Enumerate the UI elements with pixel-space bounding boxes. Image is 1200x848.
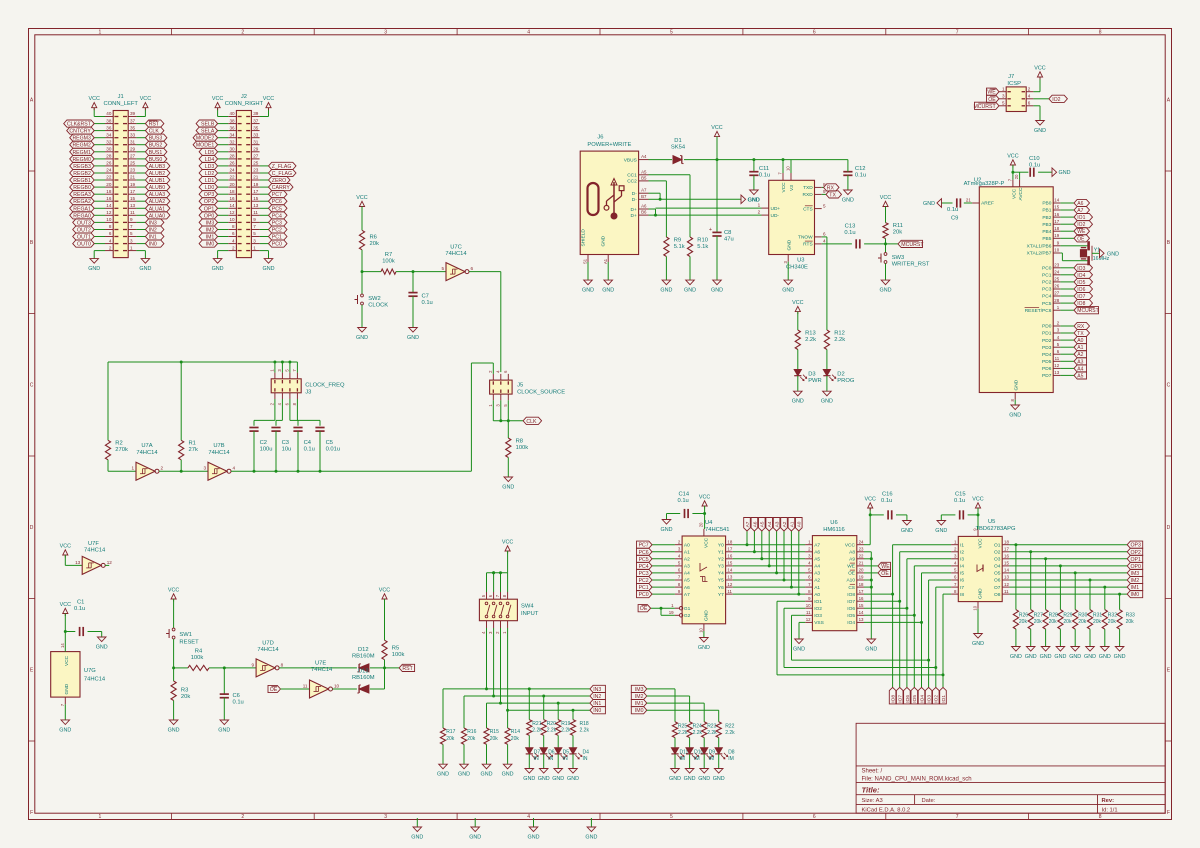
svg-text:R32: R32	[1108, 612, 1117, 618]
svg-text:VCC: VCC	[880, 195, 891, 201]
svg-text:0.1u: 0.1u	[844, 230, 855, 236]
junction	[870, 579, 873, 582]
svg-text:V3: V3	[789, 185, 795, 191]
wire	[1060, 353, 1074, 355]
power symbol GND (R28)	[1040, 647, 1052, 661]
svg-text:GND: GND	[787, 239, 793, 250]
wire	[977, 609, 979, 634]
junction	[557, 702, 560, 705]
svg-text:VCC: VCC	[502, 540, 513, 546]
svg-text:C12: C12	[855, 166, 866, 172]
capacitor C13	[844, 223, 859, 248]
switch SW1 RESET	[166, 628, 199, 646]
svg-text:270k: 270k	[115, 447, 128, 453]
wire	[493, 400, 523, 421]
wire	[703, 754, 705, 768]
svg-text:I4: I4	[960, 564, 964, 570]
svg-text:IO6: IO6	[847, 606, 855, 612]
svg-text:IN0: IN0	[593, 708, 601, 714]
ic U6 pins	[805, 539, 864, 626]
power symbol GND (D6)	[538, 769, 550, 783]
svg-text:Y5: Y5	[718, 578, 724, 584]
wire	[486, 703, 488, 728]
capacitor C2	[249, 428, 272, 453]
junction	[654, 214, 657, 217]
wire	[136, 130, 145, 132]
svg-text:8: 8	[109, 224, 112, 229]
svg-text:R18: R18	[580, 721, 589, 727]
svg-text:47u: 47u	[724, 237, 734, 243]
wire bus row 0	[733, 544, 806, 546]
wire	[776, 531, 778, 573]
junction	[942, 673, 945, 676]
global label C_FLAG	[269, 169, 297, 177]
svg-text:74HC14: 74HC14	[311, 667, 333, 673]
svg-text:J6: J6	[597, 135, 603, 141]
junction	[528, 687, 531, 690]
wire	[753, 531, 755, 552]
wire	[412, 296, 414, 327]
global label MODE2	[193, 134, 218, 142]
svg-text:IO8: IO8	[891, 695, 897, 703]
svg-text:GND: GND	[1114, 654, 1126, 660]
svg-text:14: 14	[859, 610, 864, 615]
svg-text:40: 40	[106, 111, 112, 116]
svg-text:A2: A2	[684, 557, 690, 563]
power symbol GND (D3)	[792, 391, 804, 405]
power symbol GND J1 left	[88, 259, 100, 273]
wire	[94, 243, 105, 245]
wire	[254, 399, 275, 426]
junction	[172, 666, 175, 669]
switch SW3 WRITER_RST	[878, 253, 930, 268]
wire	[649, 181, 667, 237]
wire	[361, 250, 363, 272]
svg-text:RB160M: RB160M	[352, 653, 375, 659]
power symbol GND (C16)	[901, 521, 913, 535]
wire	[703, 631, 705, 638]
power symbol GND (R10)	[684, 280, 696, 294]
svg-text:U3: U3	[797, 258, 804, 264]
wire	[319, 431, 321, 471]
vertical global label IO8	[889, 687, 896, 704]
wire	[281, 362, 283, 373]
global label OP1 (U5)	[1127, 555, 1143, 563]
power symbol GND (R9)	[660, 280, 672, 294]
wire U5 output 3	[1009, 558, 1127, 560]
svg-text:MCURST: MCURST	[901, 242, 924, 248]
svg-text:3: 3	[253, 238, 256, 243]
ic U7G pins	[60, 643, 65, 707]
global label SELA	[196, 127, 218, 135]
wire IO3 route	[792, 615, 929, 660]
resistor R19	[556, 720, 572, 736]
global label OE (reset)	[268, 685, 281, 693]
wire U5 output 7	[1009, 586, 1127, 588]
svg-text:AREF: AREF	[981, 201, 994, 207]
svg-text:GND: GND	[481, 772, 493, 778]
wire U5 input 8	[943, 593, 951, 595]
switch SW4 INPUT	[479, 592, 538, 634]
svg-text:20k: 20k	[370, 241, 379, 247]
wire	[928, 660, 930, 687]
svg-text:PC0: PC0	[272, 242, 282, 248]
power symbol VCC (U2)	[1007, 154, 1018, 168]
capacitor C15	[954, 491, 966, 519]
global label CLK	[523, 417, 542, 425]
svg-text:R26: R26	[1019, 612, 1028, 618]
svg-text:IM: IM	[728, 756, 734, 762]
wire	[607, 262, 609, 280]
wire	[921, 622, 923, 687]
global label RX (U3)	[824, 184, 840, 192]
junction	[920, 621, 923, 624]
junction	[870, 557, 873, 560]
wire	[65, 631, 75, 633]
global label REGB2	[70, 169, 95, 177]
junction	[1089, 579, 1092, 582]
diode D12 RB160M	[352, 647, 375, 672]
power symbol GND (SW2)	[356, 328, 368, 342]
svg-text:0.1u: 0.1u	[74, 606, 85, 612]
svg-text:IO7: IO7	[898, 695, 904, 703]
global label REGM2	[70, 141, 95, 149]
power symbol GND (J6)	[602, 280, 614, 294]
svg-text:19: 19	[669, 610, 674, 615]
svg-text:27: 27	[1054, 291, 1059, 296]
svg-text:27: 27	[130, 154, 136, 159]
svg-text:D-: D-	[632, 191, 637, 197]
svg-text:A1: A1	[789, 521, 795, 527]
wire	[94, 186, 105, 188]
wire	[94, 193, 105, 195]
svg-text:PB4: PB4	[1042, 229, 1051, 235]
wire	[94, 144, 105, 146]
global label PC4 (U4)	[637, 562, 653, 570]
global label RST	[145, 120, 164, 128]
wire	[799, 622, 805, 639]
wire	[486, 744, 488, 764]
wire IO7	[864, 600, 900, 602]
vertical global label A6	[751, 518, 758, 532]
connector J5 CLOCK_SOURCE	[488, 370, 565, 407]
svg-text:100k: 100k	[392, 652, 405, 658]
inverter U7A 74HC14	[131, 443, 163, 480]
svg-text:VSS: VSS	[814, 620, 824, 626]
wire	[384, 660, 386, 668]
resistor R4	[188, 648, 209, 670]
power symbol GND (R3)	[168, 720, 180, 734]
wire	[108, 460, 136, 471]
wire	[1012, 165, 1014, 172]
wire	[942, 202, 953, 204]
svg-text:16: 16	[727, 554, 732, 559]
wire	[260, 193, 269, 195]
svg-text:R19: R19	[561, 721, 570, 727]
wire U5 input 1	[893, 544, 952, 546]
wire	[543, 754, 545, 768]
wire	[276, 399, 282, 426]
svg-text:6: 6	[813, 29, 816, 35]
power symbol GND (C11)	[748, 190, 760, 204]
junction	[507, 419, 510, 422]
global label PC0	[269, 240, 288, 248]
svg-text:VCC: VCC	[379, 588, 390, 594]
svg-text:10: 10	[1054, 248, 1059, 253]
svg-text:2: 2	[161, 466, 164, 471]
svg-text:0.1u: 0.1u	[947, 207, 958, 213]
global label A6 (U2)	[1074, 199, 1090, 207]
svg-text:10: 10	[786, 166, 791, 171]
global label OUT3	[73, 219, 95, 227]
ic U7G 74HC14 power unit	[51, 652, 106, 698]
resistor R23	[702, 722, 718, 738]
wire	[507, 628, 509, 710]
svg-text:35: 35	[253, 125, 259, 130]
svg-text:TX: TX	[829, 192, 836, 198]
wire	[180, 460, 182, 471]
svg-text:GND: GND	[263, 266, 275, 272]
svg-text:CONN_RIGHT: CONN_RIGHT	[225, 101, 264, 107]
global label IM2 (U5)	[1127, 576, 1143, 584]
svg-text:POWER+WRITE: POWER+WRITE	[587, 142, 631, 148]
wire	[362, 271, 381, 273]
svg-text:C10: C10	[1029, 156, 1040, 162]
power symbol GND (J6 shield)	[582, 280, 594, 294]
capacitor C8 47u	[709, 227, 734, 243]
junction	[752, 158, 755, 161]
ic U4 74HC541 body	[682, 520, 729, 624]
svg-text:20k: 20k	[1126, 619, 1135, 625]
svg-text:GND: GND	[139, 266, 151, 272]
svg-text:GND: GND	[88, 266, 100, 272]
global label IM1	[199, 233, 218, 241]
svg-text:HM6116: HM6116	[823, 527, 844, 533]
svg-text:J3: J3	[305, 389, 311, 395]
capacitor C16	[881, 491, 893, 519]
wire	[94, 158, 105, 160]
wire	[260, 221, 269, 223]
wire	[1019, 172, 1021, 179]
global label TX (U2)	[1074, 329, 1090, 337]
power symbol GND flag (USB)	[741, 195, 760, 204]
vertical global label IO3	[925, 687, 932, 704]
power symbol GND (bottom)	[528, 827, 540, 841]
power symbol VCC (J7)	[1034, 66, 1045, 80]
wire	[885, 263, 887, 280]
wire bus row 5	[733, 579, 806, 581]
wire	[716, 160, 718, 233]
inverter U7C 74HC14	[441, 245, 473, 281]
svg-text:1: 1	[758, 203, 761, 208]
resistor R21	[527, 720, 543, 736]
junction	[485, 687, 488, 690]
resistor R8	[506, 438, 529, 458]
wire	[689, 754, 691, 768]
global label OE (U6)	[878, 569, 891, 577]
svg-text:GND: GND	[1099, 654, 1111, 660]
junction	[797, 593, 800, 596]
svg-text:RXD: RXD	[803, 192, 814, 198]
power symbol GND (R31)	[1084, 647, 1096, 661]
svg-text:20k: 20k	[1019, 619, 1028, 625]
global label LD1	[199, 176, 218, 184]
svg-text:10: 10	[806, 603, 811, 608]
svg-text:C6: C6	[233, 693, 240, 699]
svg-text:U6: U6	[830, 520, 837, 526]
svg-text:D7: D7	[534, 749, 541, 755]
global label IO4 (U2)	[1074, 271, 1093, 279]
svg-text:Date:: Date:	[922, 798, 936, 804]
svg-text:100k: 100k	[191, 655, 204, 661]
junction	[905, 607, 908, 610]
wire	[1074, 629, 1076, 646]
junction	[223, 666, 226, 669]
vertical global label A3	[773, 518, 780, 532]
global label MCURST (U2)	[1074, 307, 1099, 315]
svg-text:D5: D5	[563, 749, 570, 755]
wire	[136, 172, 145, 174]
wire	[281, 688, 310, 690]
wire	[1060, 295, 1074, 297]
svg-text:A5: A5	[684, 578, 690, 584]
wire	[1030, 629, 1032, 646]
svg-text:31: 31	[130, 139, 136, 144]
svg-text:GND: GND	[567, 776, 579, 782]
svg-text:CLOCK_SOURCE: CLOCK_SOURCE	[517, 389, 565, 395]
svg-text:0.1u: 0.1u	[954, 498, 965, 504]
svg-text:16: 16	[859, 596, 864, 601]
wire	[136, 165, 145, 167]
svg-text:PC2: PC2	[1042, 280, 1052, 286]
svg-text:VCC: VCC	[1007, 154, 1018, 160]
global label SELB	[196, 120, 218, 128]
wire	[218, 137, 229, 139]
svg-text:GND: GND	[1010, 654, 1022, 660]
svg-text:22: 22	[106, 175, 112, 180]
svg-text:R28: R28	[1049, 612, 1058, 618]
svg-text:28: 28	[1054, 298, 1059, 303]
svg-text:GND: GND	[684, 288, 696, 294]
global label A5 (U2)	[1074, 372, 1087, 380]
svg-text:U7E: U7E	[315, 660, 326, 666]
svg-text:11: 11	[303, 683, 308, 688]
global label PC1	[269, 233, 288, 241]
junction	[1103, 586, 1106, 589]
junction	[253, 470, 256, 473]
svg-text:GND: GND	[1084, 654, 1096, 660]
svg-text:Y7: Y7	[718, 592, 724, 598]
inverter U7D 74HC14	[252, 640, 284, 677]
svg-text:VCC: VCC	[168, 588, 179, 594]
wire	[136, 221, 145, 223]
svg-text:Title:: Title:	[862, 785, 880, 794]
global label OP0	[199, 212, 218, 220]
svg-text:D+: D+	[631, 207, 637, 213]
junction	[927, 659, 930, 662]
svg-text:16: 16	[1054, 212, 1059, 217]
svg-text:R3: R3	[181, 688, 188, 694]
ic U2 ATmega328P-P body	[964, 177, 1054, 392]
wire	[674, 754, 676, 768]
svg-text:GND: GND	[669, 776, 681, 782]
svg-text:CC2: CC2	[627, 179, 637, 185]
svg-text:20: 20	[1014, 174, 1019, 179]
svg-text:11: 11	[1055, 356, 1060, 361]
svg-text:18: 18	[1004, 539, 1009, 544]
svg-text:TBD62783APG: TBD62783APG	[976, 526, 1016, 532]
global label IO6 (U2)	[1074, 285, 1093, 293]
global label OUT1	[73, 233, 95, 241]
wire	[896, 515, 907, 521]
svg-text:11: 11	[727, 589, 732, 594]
svg-text:18: 18	[229, 189, 235, 194]
svg-text:19: 19	[130, 182, 136, 187]
global label IN2	[145, 226, 164, 234]
svg-text:KiCad E.D.A. 8.0.2: KiCad E.D.A. 8.0.2	[862, 807, 911, 813]
junction	[884, 242, 887, 245]
power symbol VCC J1 right	[140, 96, 151, 110]
wire	[718, 754, 720, 768]
wire	[543, 696, 545, 720]
wire	[209, 667, 256, 669]
global label ALUA0	[145, 212, 170, 220]
svg-text:O8: O8	[994, 592, 1001, 598]
svg-text:GND: GND	[1009, 413, 1021, 419]
svg-text:GND: GND	[1025, 654, 1037, 660]
led D5	[555, 748, 570, 762]
svg-text:14: 14	[727, 568, 732, 573]
resistor R1	[179, 440, 198, 460]
wire	[1060, 309, 1074, 311]
svg-text:0.1u: 0.1u	[422, 300, 433, 306]
svg-text:39: 39	[253, 111, 259, 116]
svg-text:12: 12	[107, 560, 113, 565]
svg-text:Y2: Y2	[718, 557, 724, 563]
global label PC7	[269, 191, 288, 199]
svg-text:20k: 20k	[181, 694, 190, 700]
wire	[942, 675, 944, 688]
svg-text:C: C	[1167, 383, 1171, 389]
connector J6 bottom pins	[581, 229, 609, 264]
svg-text:13: 13	[1054, 370, 1059, 375]
global label OUT0	[73, 240, 95, 248]
svg-text:PC0: PC0	[639, 592, 649, 598]
svg-text:VCC: VCC	[60, 544, 71, 550]
wire	[136, 229, 145, 231]
wire	[899, 601, 901, 687]
svg-text:GND: GND	[552, 776, 564, 782]
global label CNTCRY	[67, 127, 95, 135]
wire IO2 route	[784, 608, 936, 667]
svg-text:7: 7	[956, 29, 959, 35]
wire	[1060, 237, 1074, 239]
svg-text:VCC: VCC	[972, 497, 983, 503]
vertical global label A5	[759, 518, 766, 532]
wire bus row 4	[733, 572, 806, 574]
power symbol GND (R17)	[437, 764, 449, 778]
wire	[746, 531, 748, 545]
wire	[333, 688, 357, 690]
svg-text:74HC14: 74HC14	[257, 647, 279, 653]
junction	[783, 579, 786, 582]
svg-text:O6: O6	[994, 578, 1001, 584]
svg-text:GND: GND	[59, 727, 71, 733]
wire	[507, 551, 509, 573]
resistor R22	[716, 722, 735, 738]
svg-text:28: 28	[229, 154, 235, 159]
wire SW4 vcc rail	[487, 572, 508, 574]
